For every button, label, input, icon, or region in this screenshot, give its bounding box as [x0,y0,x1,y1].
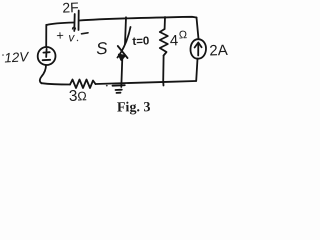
svg-text:4: 4 [170,32,179,49]
svg-text:S: S [95,39,108,59]
svg-text:Ω: Ω [179,29,188,41]
svg-text:t=0: t=0 [132,35,149,48]
svg-text:12V: 12V [4,49,31,65]
svg-text:v: v [68,30,75,44]
svg-text:2A: 2A [209,42,228,60]
svg-text:Fig. 3: Fig. 3 [117,100,151,115]
svg-text:+: + [56,28,64,43]
svg-text:Ω: Ω [77,89,87,103]
svg-text:2F: 2F [62,0,79,16]
